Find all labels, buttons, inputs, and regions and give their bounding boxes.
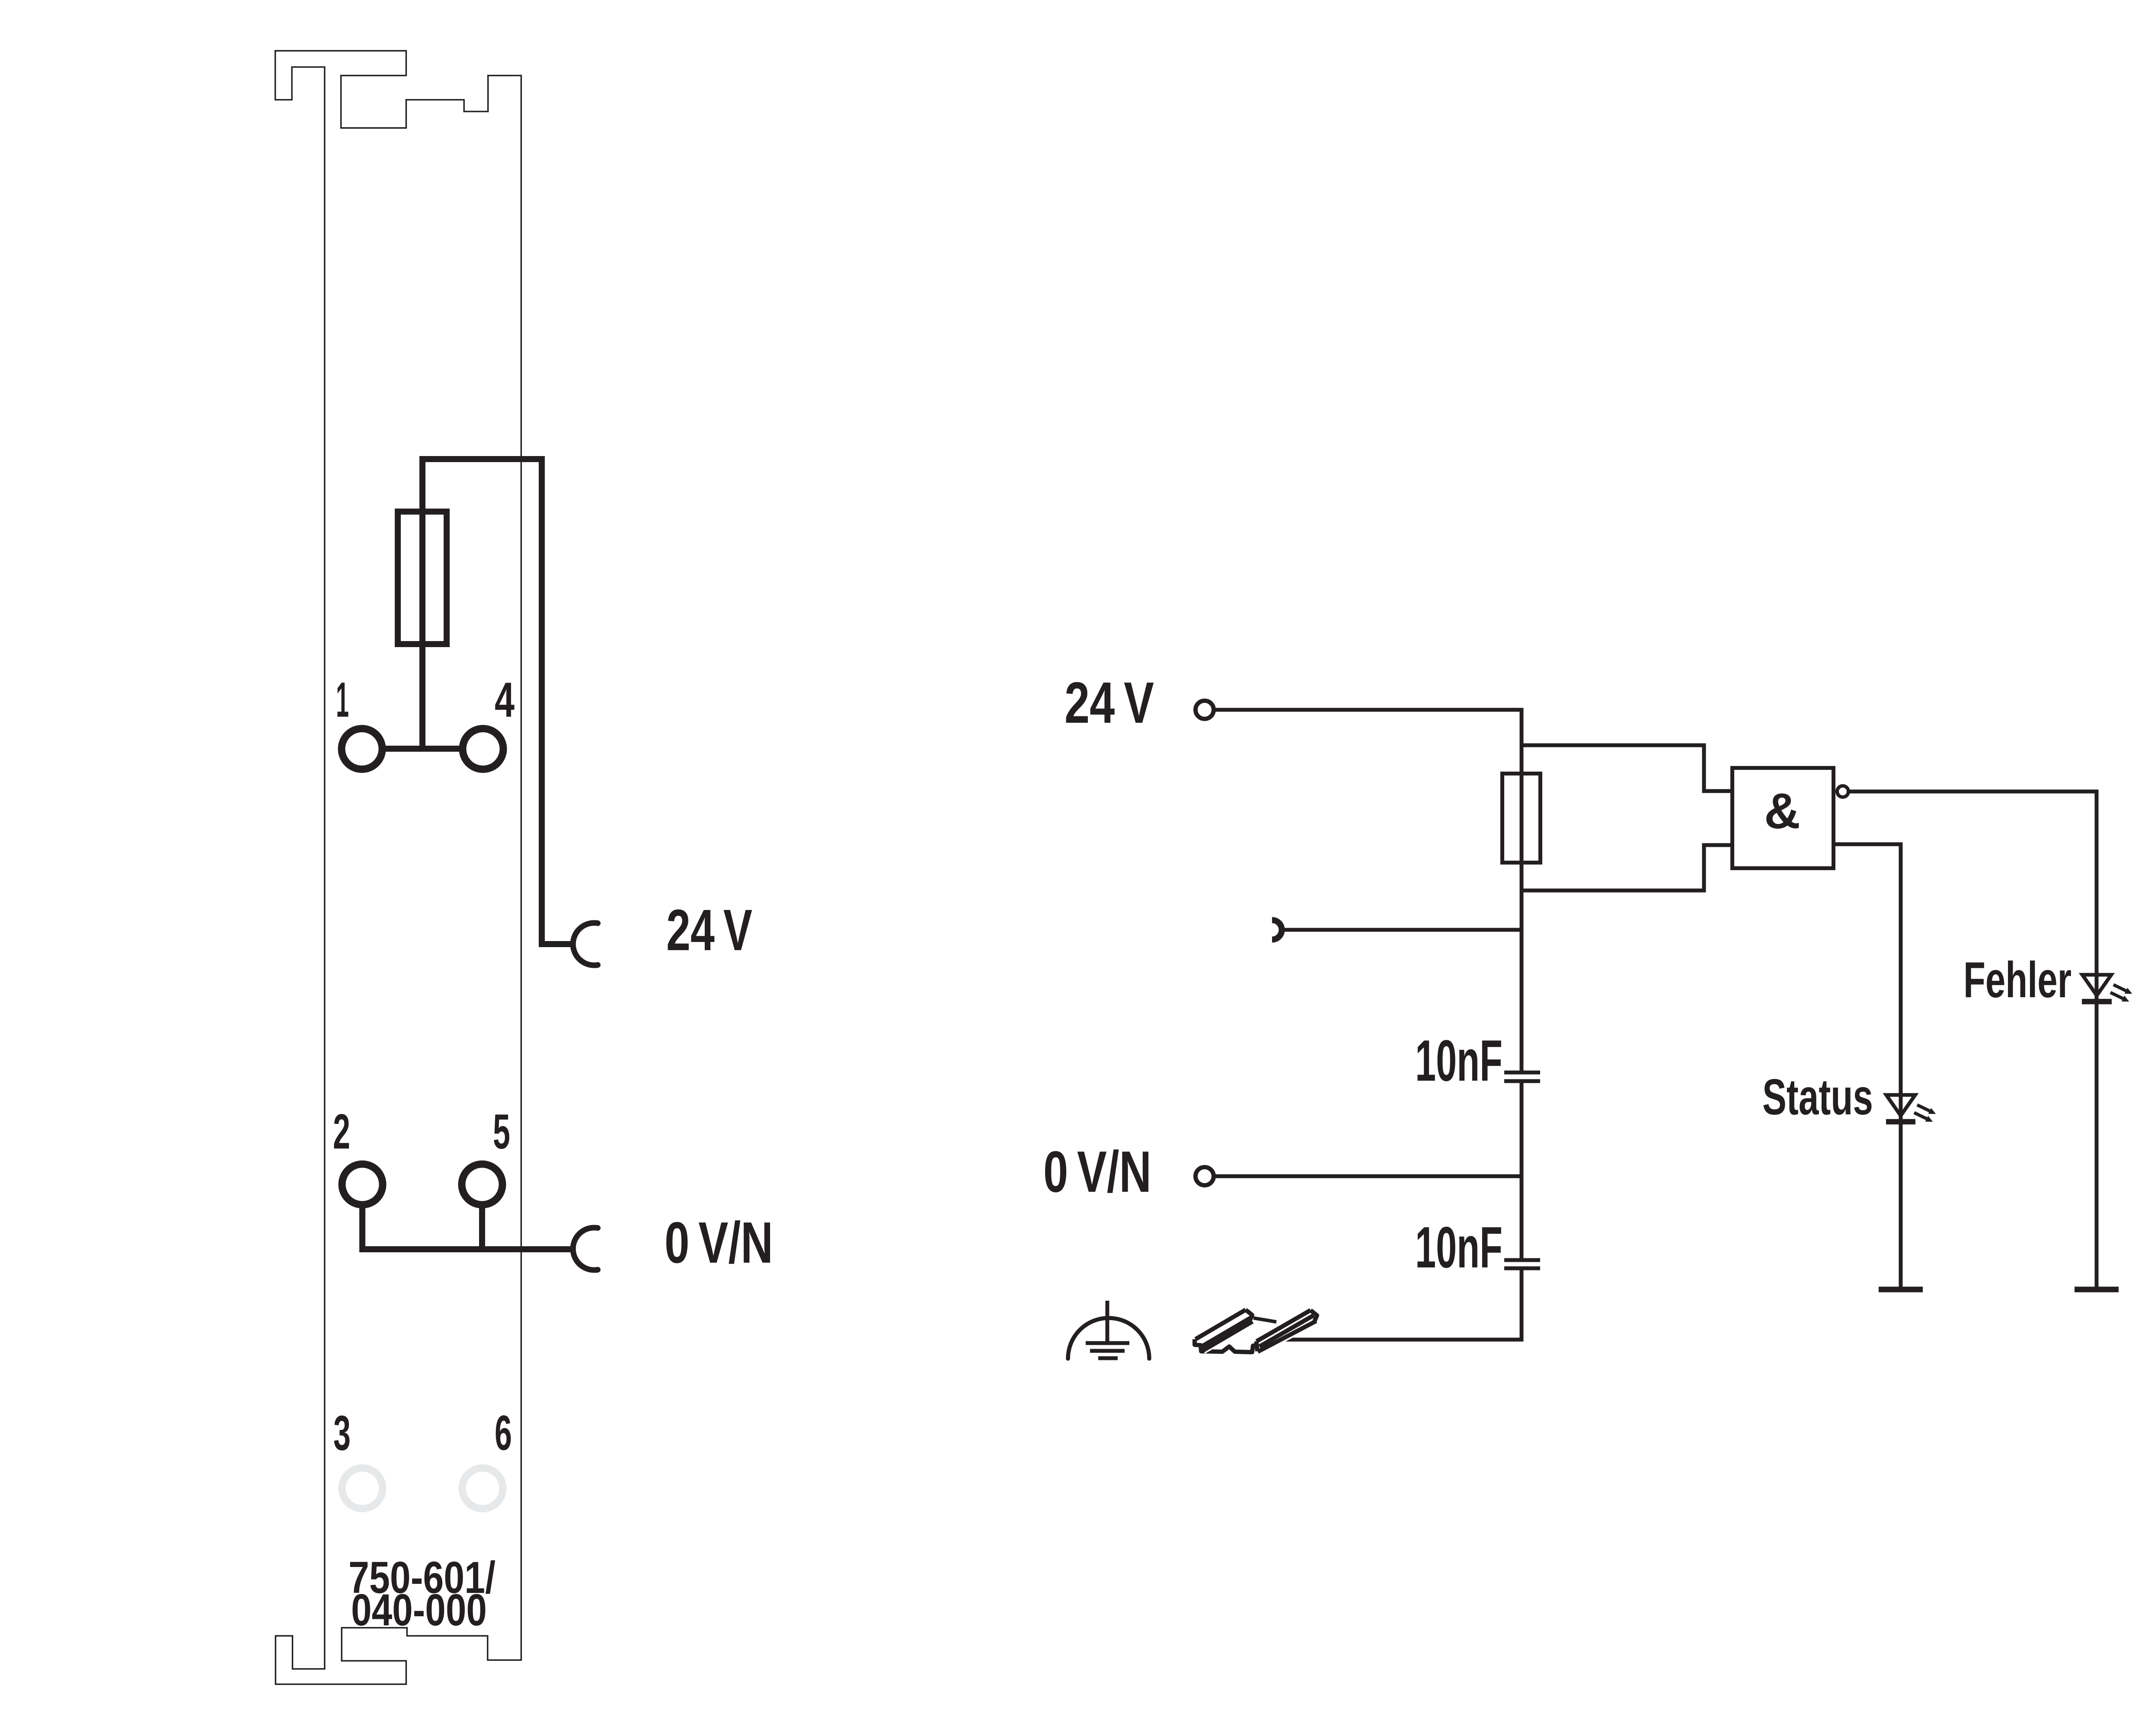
svg-text:Fehler: Fehler <box>1963 951 2071 1008</box>
wire lower output to Status LED and ground <box>1835 844 1901 1289</box>
ground (Fehler branch) <box>2075 1287 2119 1292</box>
svg-text:10nF: 10nF <box>1415 1215 1502 1280</box>
svg-text:0 V/N: 0 V/N <box>665 1210 773 1275</box>
LED Status <box>1886 1095 1915 1116</box>
socket contact from module bus <box>1272 920 1282 940</box>
node 24V <box>1196 701 1214 719</box>
fuse F1 (module) <box>398 512 447 645</box>
capacitor C2 10nF <box>1504 1260 1540 1268</box>
svg-text:4: 4 <box>495 673 515 728</box>
svg-text:24 V: 24 V <box>1065 670 1154 735</box>
module outline <box>275 51 521 1685</box>
wire 24V input to fuse bus <box>1214 710 1522 1071</box>
socket contact 0V/N (module) <box>573 1228 598 1270</box>
ground (Status branch) <box>1879 1287 1923 1292</box>
LED Fehler emission arrows <box>2113 985 2126 991</box>
wire socket to bus <box>1281 928 1522 932</box>
svg-text:0 V/N: 0 V/N <box>1043 1139 1151 1204</box>
wire 0V/N: terminal 2 stub and run to socket <box>362 1204 575 1249</box>
wire bus between capacitors <box>1520 1083 1524 1258</box>
svg-text:040-000: 040-000 <box>351 1585 487 1635</box>
svg-text:Status: Status <box>1762 1069 1873 1125</box>
capacitor C1 10nF <box>1504 1072 1540 1081</box>
LED Status emission arrows <box>1917 1105 1930 1111</box>
wire terminal 1 to terminal 4 <box>385 746 460 752</box>
terminal 1 <box>342 729 382 769</box>
svg-text:3: 3 <box>333 1406 351 1461</box>
wire to AND gate top input <box>1522 745 1730 791</box>
wire 0V/N to bus <box>1214 1174 1522 1178</box>
svg-text:2: 2 <box>333 1104 350 1159</box>
terminal 4 <box>463 729 503 769</box>
AND gate output inverter bubble <box>1837 786 1848 797</box>
terminal 3 (unused) <box>342 1468 383 1509</box>
svg-text:10nF: 10nF <box>1415 1028 1502 1093</box>
svg-text:24 V: 24 V <box>666 897 752 963</box>
wire 24V feed: fuse branch, top run, down to 24V socket <box>422 459 575 944</box>
svg-text:5: 5 <box>493 1104 510 1159</box>
wire to AND gate lower input <box>1522 845 1730 890</box>
svg-text:1: 1 <box>336 673 349 728</box>
socket contact 24V (module) <box>573 923 598 965</box>
AND gate U1 box <box>1733 768 1834 868</box>
LED Fehler <box>2082 975 2111 996</box>
functional earth symbol <box>1068 1301 1149 1359</box>
fuse F2 (schematic) <box>1502 774 1541 863</box>
node 0V/N <box>1196 1167 1214 1185</box>
wire terminal 5 stub <box>479 1204 485 1249</box>
terminal 5 <box>462 1164 502 1205</box>
wire bus to rail ground <box>1275 1270 1522 1340</box>
svg-text:6: 6 <box>495 1406 512 1461</box>
terminal 2 <box>342 1164 383 1205</box>
svg-text:&: & <box>1764 783 1800 839</box>
DIN rail symbol <box>1195 1310 1317 1353</box>
terminal 6 (unused) <box>462 1468 503 1509</box>
wire output to Fehler LED and ground <box>1849 791 2097 1289</box>
